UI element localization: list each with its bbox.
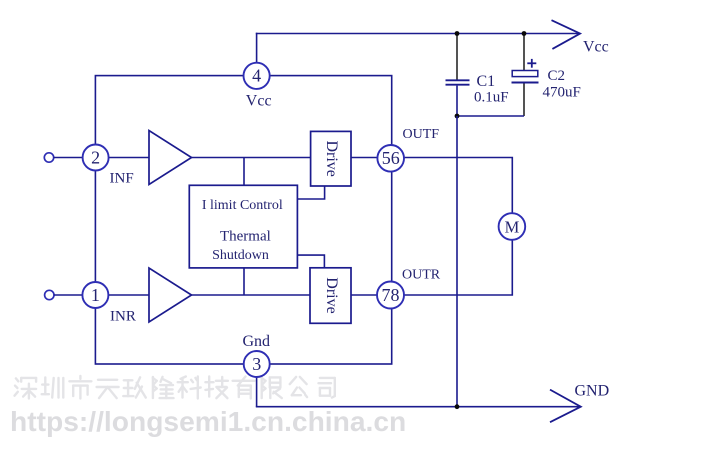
op-amp A1 forward buffer: [149, 131, 192, 185]
wire lower rail INR to OUTR: [95, 294, 391, 296]
svg-text:Vcc: Vcc: [583, 39, 609, 56]
svg-text:I limit Control: I limit Control: [202, 198, 283, 213]
pin 56 OUTF: [377, 145, 404, 172]
wire upper rail INF to OUTF: [95, 157, 391, 159]
wire C2 bottom stub: [523, 84, 525, 117]
svg-text:https://longsemi1.cn.china.cn: https://longsemi1.cn.china.cn: [10, 405, 406, 437]
wire drive1 to control block: [297, 186, 324, 199]
watermark company name: [15, 376, 335, 399]
wire motor to OUTR: [392, 240, 513, 295]
wire cap bottom tie: [457, 115, 524, 117]
wire OUTF to motor: [392, 158, 513, 214]
svg-text:INF: INF: [110, 171, 134, 187]
pin 78 OUTR: [377, 282, 404, 309]
svg-text:C1: C1: [477, 73, 496, 90]
junction ground rail at C1 drop: [455, 404, 460, 409]
svg-text:Gnd: Gnd: [243, 333, 271, 350]
svg-text:4: 4: [252, 66, 261, 86]
block U3 Drive upper: [311, 131, 351, 186]
svg-text:GND: GND: [575, 383, 610, 400]
motor M1: [499, 213, 526, 240]
terminal input reverse: [45, 290, 54, 299]
pin 2 INF: [83, 145, 109, 171]
svg-text:0.1uF: 0.1uF: [474, 90, 509, 106]
svg-text:3: 3: [252, 354, 261, 374]
svg-text:INR: INR: [110, 309, 136, 325]
wire C1 drop to ground rail: [456, 116, 458, 407]
svg-text:Vcc: Vcc: [246, 92, 272, 109]
capacitor C2 negative plate: [512, 81, 539, 83]
pin 3 Gnd: [244, 351, 270, 377]
wire control block to drive2: [297, 255, 324, 268]
svg-text:C2: C2: [548, 68, 566, 84]
wire stub control block to lower rail: [243, 268, 245, 295]
wire stub upper rail to control block: [243, 158, 245, 186]
svg-text:470uF: 470uF: [543, 84, 581, 100]
svg-text:1: 1: [91, 285, 100, 305]
pin 1 INR: [82, 282, 108, 308]
op-amp A2 reverse buffer: [149, 268, 192, 322]
wire pin 3 drop: [256, 364, 258, 407]
capacitor C1: [446, 79, 470, 81]
pin 4 Vcc: [244, 63, 270, 89]
svg-text:Shutdown: Shutdown: [212, 248, 269, 263]
svg-text:Drive: Drive: [323, 140, 340, 176]
IC U1 boundary box: [95, 76, 391, 364]
wire Vcc riser from pin 4: [256, 33, 258, 76]
wire Vcc top rail: [256, 33, 580, 35]
junction Vcc rail at C1: [455, 31, 460, 36]
junction cap tie at C1 drop: [455, 114, 460, 119]
power flag Vcc arrow: [552, 20, 581, 49]
svg-text:Thermal: Thermal: [220, 229, 271, 245]
capacitor C2 positive plate: [512, 71, 538, 77]
wire C1 top stub: [456, 34, 458, 80]
power flag GND arrow: [550, 390, 581, 423]
junction Vcc rail at C2: [522, 31, 527, 36]
block U4 Drive lower: [310, 268, 351, 324]
svg-text:2: 2: [91, 147, 100, 167]
svg-text:M: M: [505, 217, 520, 236]
block U2 I limit Control / Thermal Shutdown: [189, 185, 297, 268]
wire ground rail: [256, 406, 581, 408]
wire C2 top stub: [523, 34, 525, 71]
svg-text:78: 78: [382, 285, 400, 305]
svg-text:OUTF: OUTF: [403, 127, 440, 142]
terminal input forward: [44, 153, 53, 162]
wire C1 bottom stub: [456, 86, 458, 116]
svg-text:Drive: Drive: [323, 277, 340, 313]
polarity plus of C2: [527, 62, 536, 64]
svg-text:56: 56: [382, 148, 400, 168]
svg-text:OUTR: OUTR: [402, 268, 441, 283]
